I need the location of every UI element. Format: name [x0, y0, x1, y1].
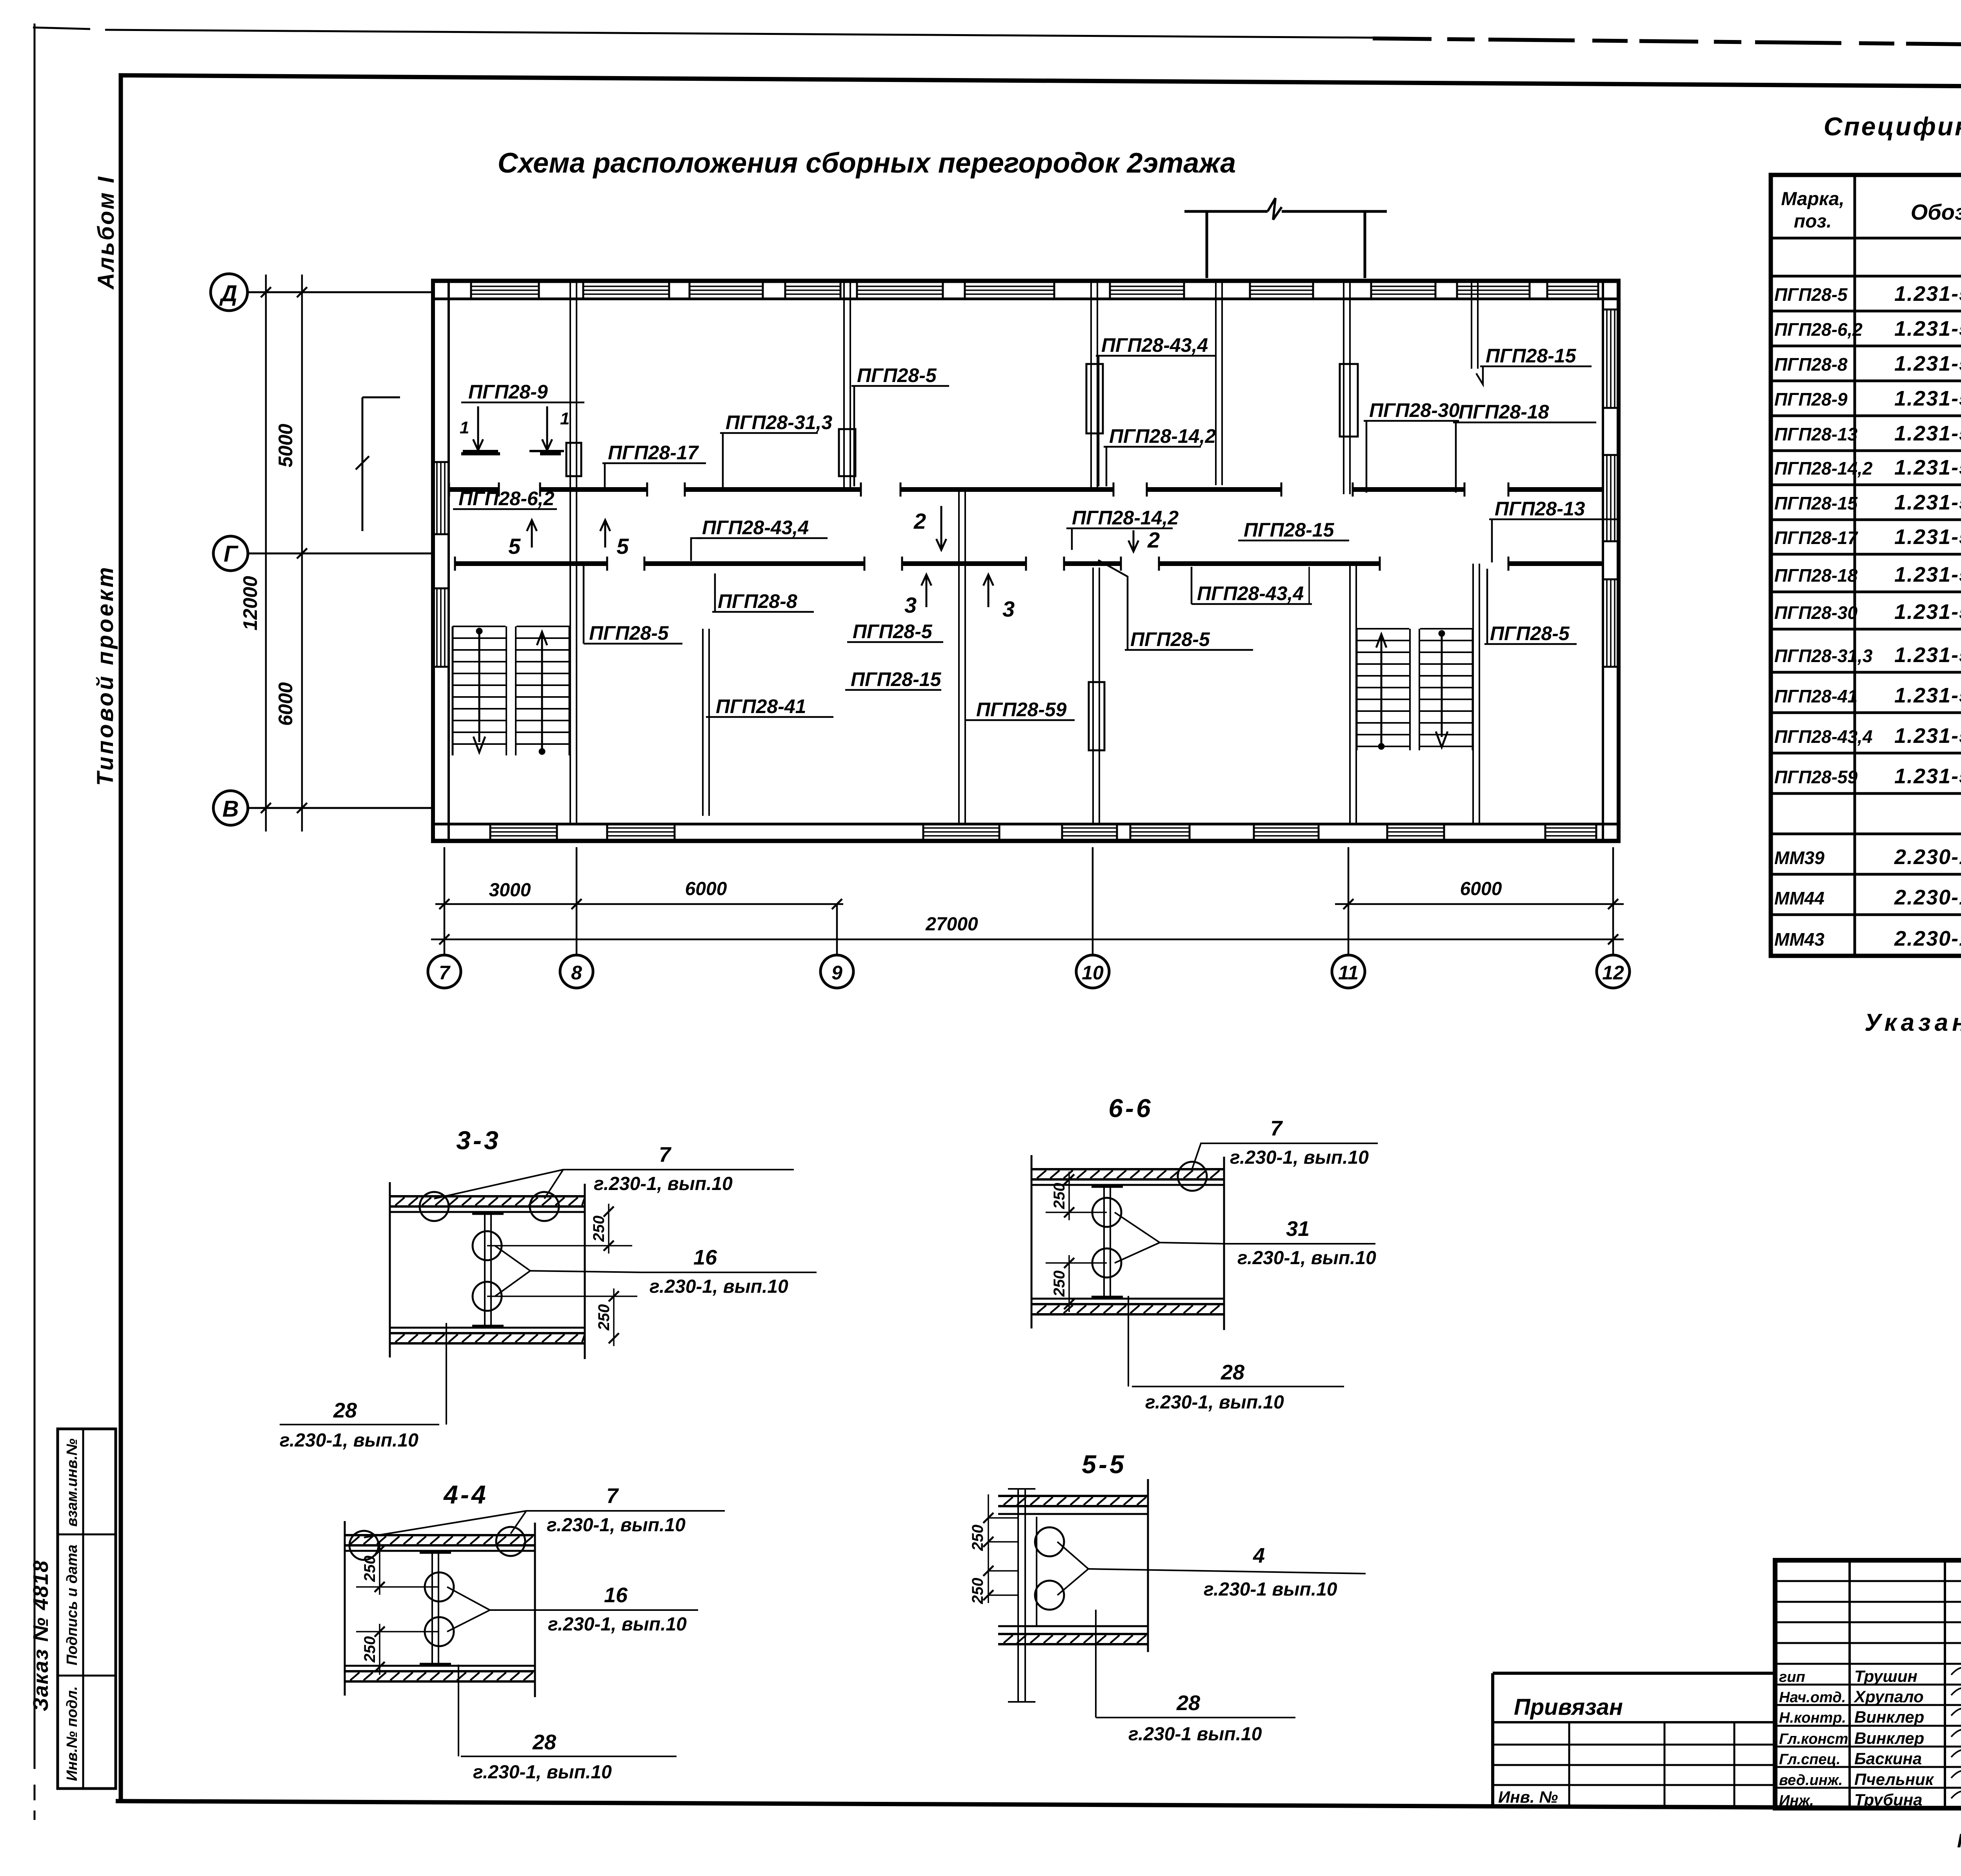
door mark 2 arrows pair: [940, 506, 942, 550]
svg-text:1: 1: [560, 409, 569, 428]
partition on axis 11 (upper): [1343, 282, 1344, 494]
svg-text:250: 250: [590, 1215, 608, 1242]
svg-text:Трушин: Трушин: [1854, 1667, 1917, 1685]
exterior wall bottom (axis В): [431, 839, 1621, 843]
section 4-4 panel: [431, 1552, 433, 1664]
section 6-6 boundary lines: [1031, 1155, 1033, 1328]
section 4-4 bottom slab: [345, 1670, 535, 1672]
section 4-4 weld triangle: [447, 1587, 490, 1632]
svg-text:31: 31: [1286, 1217, 1310, 1241]
svg-text:Копировал Хрупало: Копировал Хрупало: [1957, 1830, 1961, 1852]
left side rotated table: [58, 1429, 116, 1789]
svg-text:28: 28: [532, 1730, 556, 1754]
svg-text:ПГП28-5: ПГП28-5: [853, 620, 933, 642]
svg-text:7: 7: [439, 962, 451, 984]
svg-text:г.230-1, вып.10: г.230-1, вып.10: [1237, 1248, 1376, 1268]
svg-text:ПГП28-18: ПГП28-18: [1459, 401, 1549, 423]
svg-text:Хрупало: Хрупало: [1854, 1687, 1924, 1706]
stairwell 2: [1357, 628, 1473, 630]
svg-text:2.230-1 вып.10: 2.230-1 вып.10: [1894, 927, 1961, 950]
svg-text:Типовой проект: Типовой проект: [93, 565, 118, 786]
svg-text:1.231-5 вып.1: 1.231-5 вып.1: [1894, 643, 1961, 667]
svg-text:1.231-5 вып.1: 1.231-5 вып.1: [1894, 764, 1961, 788]
dimension line 27000: [431, 939, 1624, 941]
svg-text:250: 250: [361, 1556, 378, 1582]
svg-text:ПГП28-15: ПГП28-15: [1774, 493, 1858, 513]
section 5-5 leader 28: [1095, 1610, 1097, 1718]
svg-text:г.230-1, вып.10: г.230-1, вып.10: [547, 1515, 686, 1536]
section 5-5 weld circles: [1035, 1527, 1064, 1556]
svg-text:Инв. №: Инв. №: [1498, 1788, 1558, 1806]
svg-text:1.231-5 вып.1: 1.231-5 вып.1: [1894, 724, 1961, 748]
svg-text:Гл.спец.: Гл.спец.: [1779, 1751, 1841, 1768]
svg-text:Баскина: Баскина: [1854, 1749, 1922, 1768]
partition short upper right: [1471, 282, 1472, 369]
svg-text:ПГП28-14,2: ПГП28-14,2: [1774, 458, 1873, 479]
section 5-5 inner frame: [1036, 1517, 1037, 1626]
svg-text:8: 8: [571, 962, 582, 984]
room divider stubs top-left: [461, 452, 500, 455]
section 3-3 250 dims: [608, 1204, 609, 1254]
svg-text:1.231-5 вып.1: 1.231-5 вып.1: [1894, 352, 1961, 375]
svg-text:6000: 6000: [685, 879, 727, 899]
svg-text:Нач.отд.: Нач.отд.: [1779, 1689, 1846, 1706]
svg-text:Пчельник: Пчельник: [1854, 1770, 1934, 1789]
axis circle 7: [428, 955, 461, 988]
section 4-4 boundary lines: [344, 1521, 346, 1696]
svg-text:12: 12: [1602, 962, 1624, 984]
vertical dimension line 12000: [265, 275, 267, 832]
svg-text:ПГП28-13: ПГП28-13: [1774, 424, 1857, 444]
svg-text:Винклер: Винклер: [1854, 1708, 1924, 1726]
dimension line 3000 / 6000 (left): [435, 903, 843, 905]
svg-text:10: 10: [1082, 962, 1104, 984]
svg-text:3: 3: [1002, 597, 1015, 621]
svg-text:1: 1: [460, 418, 469, 437]
svg-text:г.230-1 вып.10: г.230-1 вып.10: [1128, 1724, 1262, 1745]
svg-text:г.230-1, вып.10: г.230-1, вып.10: [280, 1430, 418, 1451]
spec table grid: [1771, 175, 1961, 956]
svg-text:250: 250: [969, 1578, 986, 1605]
svg-text:28: 28: [1176, 1691, 1200, 1715]
partition stairwell-2 right wall: [1472, 564, 1474, 824]
title block outer: [1775, 1560, 1961, 1808]
axis circle Г: [213, 536, 248, 571]
svg-text:ПГП28-14,2: ПГП28-14,2: [1109, 425, 1216, 447]
sheet outer border top: [33, 27, 1373, 38]
svg-text:Г: Г: [224, 541, 238, 567]
section 6-6 250 dims: [1068, 1172, 1070, 1220]
section 6-6 top slab: [1031, 1168, 1224, 1170]
section 4-4 weld circles: [349, 1531, 378, 1560]
svg-text:Указания смотреть на листе: Указания смотреть на листе 13: [1865, 1009, 1961, 1036]
svg-text:ПГП28-43,4: ПГП28-43,4: [1197, 582, 1304, 604]
svg-text:ПГП28-43,4: ПГП28-43,4: [1101, 334, 1208, 356]
svg-text:ПГП28-5: ПГП28-5: [1130, 628, 1210, 650]
axis circle 11: [1332, 955, 1365, 988]
sheet top crease dashed line: [1373, 38, 1961, 50]
section 3-3 leader 28: [446, 1323, 447, 1425]
svg-text:Гл.конст.: Гл.конст.: [1779, 1731, 1852, 1747]
svg-text:ПГП28-43,4: ПГП28-43,4: [1774, 726, 1872, 747]
exterior wall left: [431, 279, 435, 842]
svg-text:ПГП28-15: ПГП28-15: [1244, 519, 1335, 541]
svg-text:1.231-5 вып.1: 1.231-5 вып.1: [1894, 684, 1961, 707]
svg-text:ПГП28-14,2: ПГП28-14,2: [1072, 507, 1179, 529]
svg-text:ПГП28-59: ПГП28-59: [976, 699, 1067, 721]
svg-text:ПГП28-8: ПГП28-8: [718, 590, 797, 612]
svg-text:5000: 5000: [275, 424, 297, 467]
svg-text:ММ43: ММ43: [1774, 929, 1825, 950]
svg-text:Трубина: Трубина: [1854, 1790, 1922, 1809]
svg-text:Марка,: Марка,: [1781, 189, 1845, 209]
partition ПГП28-41 (lower): [702, 629, 704, 816]
section 5-5 vertical panel: [1017, 1489, 1019, 1702]
partition ПГП28-59 (lower): [958, 489, 960, 824]
svg-text:5: 5: [617, 534, 629, 559]
svg-text:7: 7: [659, 1143, 672, 1166]
stairwell 1: [453, 626, 569, 627]
svg-text:г.230-1, вып.10: г.230-1, вып.10: [1145, 1392, 1284, 1413]
door mark 5 arrows left pair: [531, 520, 533, 548]
svg-text:9: 9: [831, 962, 842, 984]
svg-text:2: 2: [1147, 528, 1160, 552]
svg-text:4-4: 4-4: [443, 1480, 488, 1509]
svg-text:1.231-5 вып.1: 1.231-5 вып.1: [1894, 282, 1961, 306]
svg-text:27000: 27000: [925, 914, 978, 935]
title block verticals: [1848, 1560, 1851, 1808]
svg-text:3000: 3000: [489, 880, 531, 901]
svg-text:1.231-5 вып.1: 1.231-5 вып.1: [1894, 387, 1961, 410]
svg-text:1.231-5 вып.1: 1.231-5 вып.1: [1894, 456, 1961, 479]
svg-text:ПГП28-15: ПГП28-15: [1486, 345, 1577, 367]
svg-text:ПГП28-30: ПГП28-30: [1369, 399, 1460, 421]
svg-text:ПГП28-30: ПГП28-30: [1774, 602, 1857, 623]
svg-text:Н.контр.: Н.контр.: [1779, 1710, 1846, 1726]
dimension line 6000 (right): [1335, 903, 1624, 905]
svg-text:16: 16: [604, 1583, 628, 1607]
svg-text:250: 250: [1051, 1270, 1068, 1297]
svg-text:250: 250: [361, 1636, 378, 1663]
svg-text:ПГП28-17: ПГП28-17: [1774, 528, 1858, 548]
svg-text:ПГП28-43,4: ПГП28-43,4: [702, 517, 809, 539]
svg-text:5-5: 5-5: [1082, 1450, 1126, 1479]
svg-text:28: 28: [333, 1399, 357, 1422]
svg-text:Д: Д: [219, 281, 237, 306]
svg-text:ПГП28-6,2: ПГП28-6,2: [1774, 319, 1863, 340]
roof vent outline above top wall: [1184, 210, 1268, 213]
door mark 3 arrows pair: [926, 575, 928, 607]
section 6-6 leader 7: [1192, 1143, 1378, 1168]
svg-text:ПГП28-17: ПГП28-17: [608, 442, 699, 464]
svg-text:Винклер: Винклер: [1854, 1729, 1924, 1747]
svg-text:1.231-5 вып.1: 1.231-5 вып.1: [1894, 422, 1961, 445]
section 6-6 weld triangle: [1115, 1212, 1160, 1263]
svg-text:2.230-1 вып.10: 2.230-1 вып.10: [1894, 886, 1961, 909]
svg-text:г.230-1, вып.10: г.230-1, вып.10: [649, 1276, 788, 1297]
vertical dimension line 5000/6000: [301, 275, 303, 832]
svg-text:Спецификация к схеме расположе: Спецификация к схеме расположения перего…: [1824, 112, 1961, 141]
svg-text:г.230-1, вып.10: г.230-1, вып.10: [548, 1614, 687, 1635]
partition on axis 10 (lower): [1092, 568, 1094, 824]
section cut mark near left wall: [362, 397, 364, 531]
partition stairwell-2 left wall: [1349, 564, 1351, 824]
section 6-6 panel: [1103, 1186, 1105, 1297]
svg-text:1.231-5 вып.1: 1.231-5 вып.1: [1894, 491, 1961, 514]
svg-text:Подпись и дата: Подпись и дата: [64, 1545, 80, 1665]
section 5-5 right boundary: [1147, 1479, 1149, 1652]
svg-text:ПГП28-6,2: ПГП28-6,2: [458, 488, 555, 509]
section 6-6 leader 28: [1128, 1296, 1129, 1387]
title block horizontals: [1775, 1580, 1961, 1582]
svg-text:взам.инв.№: взам.инв.№: [64, 1439, 80, 1527]
section 3-3 weld triangle: [495, 1246, 530, 1296]
exterior wall top (axis Д): [431, 279, 1621, 283]
svg-text:3: 3: [904, 593, 917, 617]
svg-text:1.231-5 вып.1: 1.231-5 вып.1: [1894, 317, 1961, 340]
partition upper room 10-11: [1215, 282, 1217, 485]
svg-text:250: 250: [595, 1304, 613, 1331]
svg-text:В: В: [222, 796, 239, 822]
svg-text:28: 28: [1221, 1361, 1244, 1384]
section 5-5 250 dims: [988, 1494, 989, 1550]
svg-text:7: 7: [606, 1484, 619, 1508]
axis circle 8: [560, 955, 593, 988]
svg-text:3-3: 3-3: [456, 1126, 500, 1155]
section 5-5 weld triangle: [1057, 1542, 1088, 1595]
svg-text:1.231-5 вып.1: 1.231-5 вып.1: [1894, 525, 1961, 549]
section 5-5 leader 4: [1088, 1569, 1366, 1574]
svg-text:250: 250: [1051, 1183, 1068, 1210]
svg-text:Заказ № 4818: Заказ № 4818: [29, 1560, 53, 1711]
svg-text:ПГП28-18: ПГП28-18: [1774, 565, 1857, 586]
svg-text:ПГП28-31,3: ПГП28-31,3: [1774, 646, 1873, 666]
svg-text:ПГП28-9: ПГП28-9: [468, 381, 548, 403]
section 6-6 bottom slab: [1031, 1303, 1224, 1305]
section 4-4 leader 7: [364, 1511, 725, 1538]
section 4-4 mid leader: [490, 1609, 553, 1611]
sheet outer border left: [34, 24, 36, 1769]
svg-text:гип: гип: [1779, 1669, 1805, 1685]
axis circle Д: [211, 274, 247, 311]
svg-text:16: 16: [693, 1246, 717, 1269]
axis circle 12: [1597, 955, 1630, 988]
svg-text:вед.инж.: вед.инж.: [1779, 1772, 1843, 1789]
svg-text:ПГП28-5: ПГП28-5: [1490, 622, 1570, 644]
svg-text:г.230-1 вып.10: г.230-1 вып.10: [1204, 1579, 1337, 1600]
svg-text:ПГП28-59: ПГП28-59: [1774, 767, 1857, 787]
partition at stairwell-1 right wall: [569, 282, 571, 824]
section 3-3 bottom slab: [390, 1332, 585, 1334]
svg-text:250: 250: [969, 1525, 986, 1551]
svg-text:ПГП28-31,3: ПГП28-31,3: [726, 411, 832, 433]
svg-text:Схема расположения сборных: Схема расположения сборных перегородок 2…: [498, 147, 1236, 179]
svg-text:5: 5: [508, 534, 521, 559]
svg-text:6-6: 6-6: [1108, 1094, 1153, 1123]
corridor upper wall (with door gaps): [449, 487, 499, 492]
svg-text:ПГП28-15: ПГП28-15: [851, 668, 942, 690]
svg-text:Альбом I: Альбом I: [93, 175, 119, 290]
axis circle В: [213, 791, 248, 825]
svg-text:11: 11: [1338, 962, 1359, 984]
section 4-4 250 dims: [379, 1543, 380, 1595]
svg-text:Привязан: Привязан: [1514, 1694, 1623, 1720]
section 3-3 weld circles: [420, 1192, 449, 1221]
svg-text:1.231-5 вып.1: 1.231-5 вып.1: [1894, 600, 1961, 624]
svg-text:ММ44: ММ44: [1774, 888, 1825, 908]
svg-text:ПГП28-9: ПГП28-9: [1774, 389, 1848, 409]
section 5-5 bottom slab: [998, 1633, 1148, 1635]
svg-text:г.230-1, вып.10: г.230-1, вып.10: [473, 1762, 612, 1783]
section 3-3 mid leader: [530, 1271, 642, 1272]
axis circle 10: [1076, 955, 1109, 988]
partition on axis 9 (upper): [843, 282, 845, 489]
privyazan table: [1493, 1672, 1775, 1675]
svg-text:ПГП28-41: ПГП28-41: [1774, 686, 1857, 706]
section 4-4 top slab: [345, 1534, 535, 1536]
section 3-3 boundary lines: [389, 1182, 391, 1357]
corridor lower wall (with door gaps): [455, 561, 607, 566]
svg-text:ММ39: ММ39: [1774, 848, 1825, 868]
partition on axis 10 (upper): [1090, 282, 1092, 489]
bottom axis extension lines: [444, 847, 446, 955]
section 3-3 panel: [484, 1214, 486, 1326]
svg-text:ПГП28-5: ПГП28-5: [1774, 284, 1848, 305]
svg-text:ПГП28-5: ПГП28-5: [589, 622, 669, 644]
svg-text:4: 4: [1253, 1544, 1265, 1567]
svg-text:ПГП28-41: ПГП28-41: [716, 695, 806, 717]
svg-text:2.230-1 вып.10: 2.230-1 вып.10: [1894, 845, 1961, 869]
axis circle 9: [820, 955, 853, 988]
svg-text:2: 2: [913, 509, 926, 533]
section 6-6 mid leader: [1160, 1243, 1225, 1244]
exterior wall right: [1617, 279, 1621, 842]
svg-text:Инж.: Инж.: [1779, 1792, 1814, 1809]
section 6-6 weld circles: [1178, 1162, 1207, 1191]
svg-text:6000: 6000: [275, 682, 297, 726]
svg-text:12000: 12000: [239, 576, 261, 630]
svg-text:г.230-1, вып.10: г.230-1, вып.10: [594, 1174, 733, 1194]
section 3-3 top slab: [390, 1195, 585, 1197]
section 3-3 leader 7: [434, 1170, 794, 1199]
svg-text:ПГП28-5: ПГП28-5: [857, 364, 937, 386]
svg-text:поз.: поз.: [1794, 211, 1832, 232]
svg-text:Инв.№ подл.: Инв.№ подл.: [64, 1686, 80, 1781]
section 5-5 top slab: [998, 1495, 1148, 1497]
svg-text:7: 7: [1270, 1117, 1283, 1140]
section 4-4 leader 28: [458, 1665, 459, 1756]
svg-text:6000: 6000: [1460, 879, 1502, 899]
svg-text:г.230-1, вып.10: г.230-1, вып.10: [1230, 1147, 1369, 1168]
svg-text:1.231-5 вып.1: 1.231-5 вып.1: [1894, 563, 1961, 586]
svg-text:Обозначение: Обозначение: [1911, 200, 1961, 224]
svg-text:ПГП28-13: ПГП28-13: [1495, 498, 1585, 520]
svg-text:ПГП28-8: ПГП28-8: [1774, 354, 1848, 375]
